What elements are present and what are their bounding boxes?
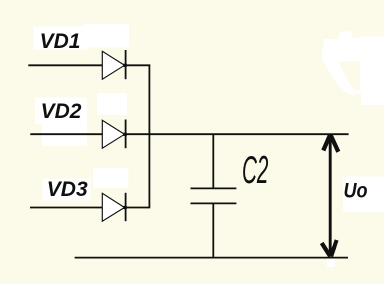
wire VD2 cathode / output top rail [126, 133, 349, 135]
white patch VD3 label [43, 179, 91, 201]
diode VD3 [102, 193, 125, 221]
svg-text:Uo: Uo [344, 179, 368, 203]
wire bus vertical [148, 65, 150, 208]
junction dot at VD3 cathode node [123, 206, 127, 209]
white patch VD2 label [35, 98, 87, 125]
wire VD3 cathode to bus [126, 207, 151, 209]
wire VD1 cathode to bus corner [126, 64, 151, 66]
white patch right of VD2 [97, 93, 127, 115]
white patch below arrow bottom [327, 259, 335, 267]
junction dot at VD1 cathode node [123, 64, 127, 67]
svg-text:VD1: VD1 [40, 30, 81, 53]
svg-text:C2: C2 [242, 148, 268, 192]
white patch VD1 label [34, 27, 88, 50]
svg-text:VD2: VD2 [41, 100, 82, 123]
wire bottom rail [75, 257, 348, 259]
wire VD3 anode [30, 207, 102, 209]
diode VD2 [102, 120, 125, 149]
capacitor C2 [191, 135, 237, 258]
white patch right of VD1 [84, 24, 129, 48]
wire VD1 anode [28, 64, 102, 66]
eraser blob top-right [322, 32, 384, 106]
junction dot at VD2 cathode node [123, 133, 127, 136]
white patch right of VD3 [93, 168, 128, 188]
white patch below VD2 label [42, 120, 87, 146]
svg-text:VD3: VD3 [47, 178, 88, 201]
wire VD2 anode [30, 133, 102, 135]
eraser blob wedge (background colored hole) [339, 61, 361, 91]
white patch Uo label [343, 177, 384, 212]
diode VD1 [102, 50, 125, 79]
Uo arrow double-headed [322, 135, 339, 257]
